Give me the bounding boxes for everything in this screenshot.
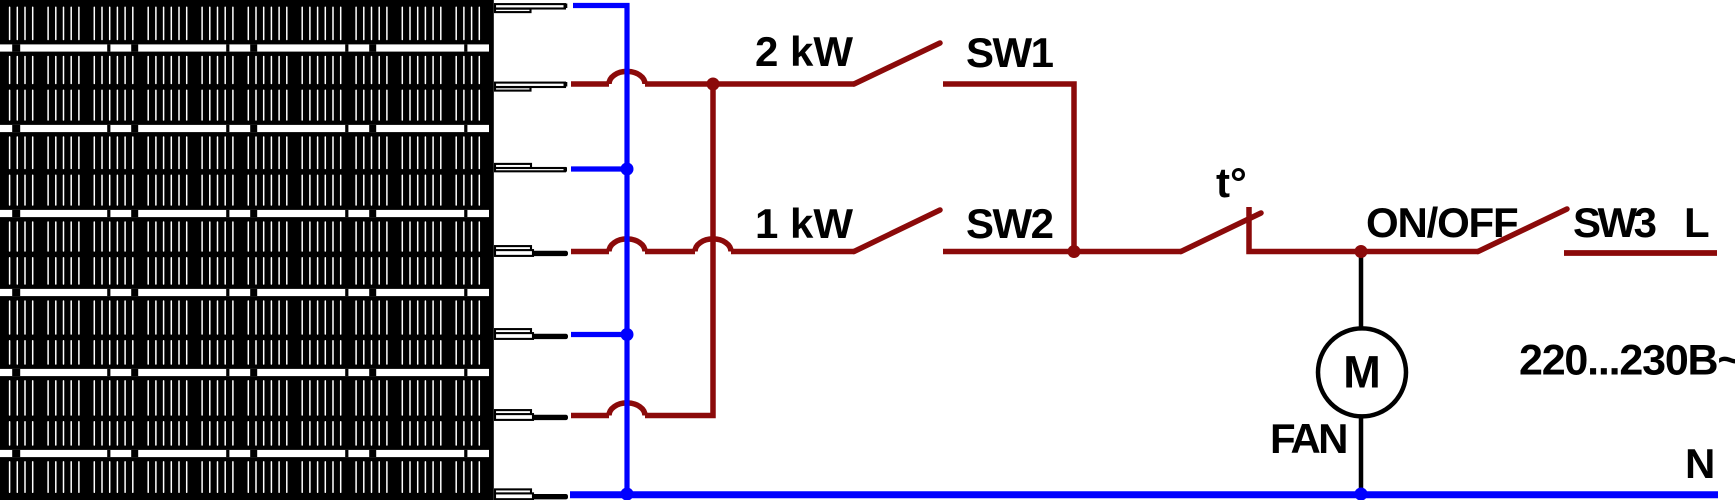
svg-text:ON/OFF: ON/OFF <box>1366 199 1518 246</box>
svg-text:SW3: SW3 <box>1573 199 1656 246</box>
svg-text:2 kW: 2 kW <box>755 28 853 75</box>
svg-text:M: M <box>1343 347 1381 398</box>
svg-text:1 kW: 1 kW <box>755 200 853 247</box>
svg-text:N: N <box>1685 440 1715 487</box>
svg-text:SW1: SW1 <box>966 29 1054 76</box>
svg-text:SW2: SW2 <box>966 200 1053 247</box>
svg-text:FAN: FAN <box>1270 415 1346 462</box>
svg-text:t°: t° <box>1216 159 1247 206</box>
svg-text:220...230В~: 220...230В~ <box>1519 337 1735 385</box>
svg-text:L: L <box>1684 199 1710 246</box>
